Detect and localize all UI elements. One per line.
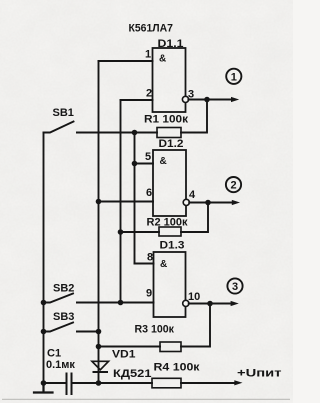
wire pin 1 of D1.1 to rail A bbox=[99, 60, 153, 62]
junction dot left rail / bottom rail / ground bbox=[41, 380, 47, 386]
switch SB3 bbox=[44, 323, 81, 332]
wire R3 left lead from rail A bbox=[99, 346, 161, 348]
svg-text:6: 6 bbox=[146, 187, 152, 199]
svg-text:D1.2: D1.2 bbox=[159, 138, 184, 150]
junction dot rail B / R2 bbox=[118, 229, 124, 235]
junction dot rail A / R3 bbox=[96, 344, 102, 350]
wire R4 to +Uпит with arrow bbox=[181, 382, 234, 384]
wire R2 left lead bbox=[121, 231, 160, 233]
gate D1.2 output bubble pin 4 bbox=[183, 199, 189, 205]
resistor R1 bbox=[157, 128, 181, 138]
wire output 1 with arrow bbox=[188, 99, 231, 101]
svg-text:9: 9 bbox=[146, 288, 152, 300]
svg-text:D1.3: D1.3 bbox=[160, 240, 185, 252]
wire pin 6 of D1.2 from rail A bbox=[99, 201, 154, 203]
svg-text:2: 2 bbox=[146, 88, 152, 100]
wire rail B vertical (pin2 / R2 / SB2-pin9) bbox=[120, 100, 122, 303]
junction dot output 1 bbox=[204, 97, 210, 103]
resistor R2 bbox=[159, 227, 181, 236]
wire rail C vertical (R1 node / pin5 / pin8) bbox=[134, 133, 136, 264]
svg-text:R4 100к: R4 100к bbox=[154, 362, 201, 374]
wire pin 8 of D1.3 from rail C bbox=[135, 263, 154, 265]
wire bottom rail left (to C1) bbox=[44, 382, 67, 384]
wire bottom rail middle (C1 to R4) bbox=[72, 382, 153, 384]
junction dot output 3 bbox=[207, 301, 213, 307]
circled output number 2 bbox=[226, 177, 241, 192]
wire R2 right lead up to output 2 node bbox=[181, 203, 208, 233]
svg-text:8: 8 bbox=[147, 252, 153, 264]
junction dot SB3 / rail A bbox=[96, 329, 102, 335]
svg-text:КД521: КД521 bbox=[113, 368, 152, 380]
svg-text:SB2: SB2 bbox=[53, 282, 74, 294]
wire SB3 to rail A bbox=[77, 331, 99, 333]
wire SB1 to node R1 bbox=[77, 132, 135, 134]
switch SB2 bbox=[44, 294, 81, 303]
svg-text:R1 100к: R1 100к bbox=[144, 114, 189, 126]
junction dot rail A / pin 6 bbox=[96, 199, 102, 205]
junction dot VD1 / bottom rail bbox=[96, 380, 102, 386]
junction dot output 2 bbox=[205, 200, 211, 206]
svg-text:C1: C1 bbox=[47, 347, 61, 359]
wire R1 right lead up to output 1 node bbox=[181, 100, 207, 133]
ground symbol bbox=[34, 383, 53, 393]
resistor R4 bbox=[152, 378, 181, 388]
svg-text:VD1: VD1 bbox=[112, 349, 136, 361]
wire rail A vertical (pin1 / pin6 / SB3 / R3 / VD1) bbox=[98, 61, 100, 383]
wire R3 right lead up to output 3 node bbox=[181, 304, 210, 347]
svg-text:2: 2 bbox=[230, 180, 236, 192]
svg-text:4: 4 bbox=[189, 189, 196, 201]
svg-text:5: 5 bbox=[145, 151, 151, 163]
svg-text:SB1: SB1 bbox=[53, 107, 74, 119]
junction dot rail B / SB2 line bbox=[118, 300, 124, 306]
diode VD1 bbox=[92, 361, 109, 370]
gate D1.3 output bubble pin 10 bbox=[183, 300, 189, 306]
circled output number 1 bbox=[226, 69, 241, 84]
junction dot rail C / pin 5 bbox=[132, 161, 138, 167]
svg-text:3: 3 bbox=[232, 281, 238, 293]
wire SB2 to pin 9 of D1.3 bbox=[77, 302, 154, 304]
wire left rail vertical (SB1/SB2/SB3/C1) bbox=[43, 133, 45, 384]
svg-text:&: & bbox=[160, 156, 167, 167]
junction dot SB1 / R1 / rail C bbox=[132, 130, 138, 136]
svg-text:+Uпит: +Uпит bbox=[237, 368, 282, 380]
gate D1.3 box bbox=[154, 252, 186, 317]
wire output 3 with arrow bbox=[189, 303, 230, 305]
gate D1.1 output bubble pin 3 bbox=[182, 96, 188, 102]
svg-text:&: & bbox=[160, 259, 167, 270]
svg-text:К561ЛА7: К561ЛА7 bbox=[129, 23, 174, 35]
capacitor C1 plates bbox=[67, 374, 72, 395]
diode VD1 cathode bar bbox=[94, 371, 108, 373]
circled output number 3 bbox=[227, 278, 242, 293]
svg-text:SB3: SB3 bbox=[53, 311, 74, 323]
svg-text:3: 3 bbox=[188, 88, 194, 100]
wire pin 5 of D1.2 from rail C bbox=[135, 163, 154, 165]
junction dot SB2 / left rail bbox=[41, 300, 47, 306]
wire R1 left lead bbox=[135, 132, 158, 134]
svg-text:10: 10 bbox=[188, 291, 200, 303]
scan artifact line at bottom bbox=[2, 398, 290, 400]
gate D1.1 box bbox=[153, 48, 186, 112]
wire output 2 with arrow bbox=[189, 202, 232, 204]
gate D1.2 box bbox=[153, 150, 186, 216]
junction dot SB3 / left rail bbox=[41, 329, 47, 335]
svg-text:R3 100к: R3 100к bbox=[135, 323, 175, 335]
svg-text:1: 1 bbox=[231, 71, 237, 83]
svg-text:0.1мк: 0.1мк bbox=[46, 359, 75, 371]
switch SB1 bbox=[44, 122, 81, 133]
svg-text:1: 1 bbox=[145, 49, 151, 61]
wire pin 2 of D1.1 to rail B bbox=[121, 99, 153, 101]
svg-text:&: & bbox=[159, 54, 166, 65]
resistor R3 bbox=[160, 342, 181, 352]
